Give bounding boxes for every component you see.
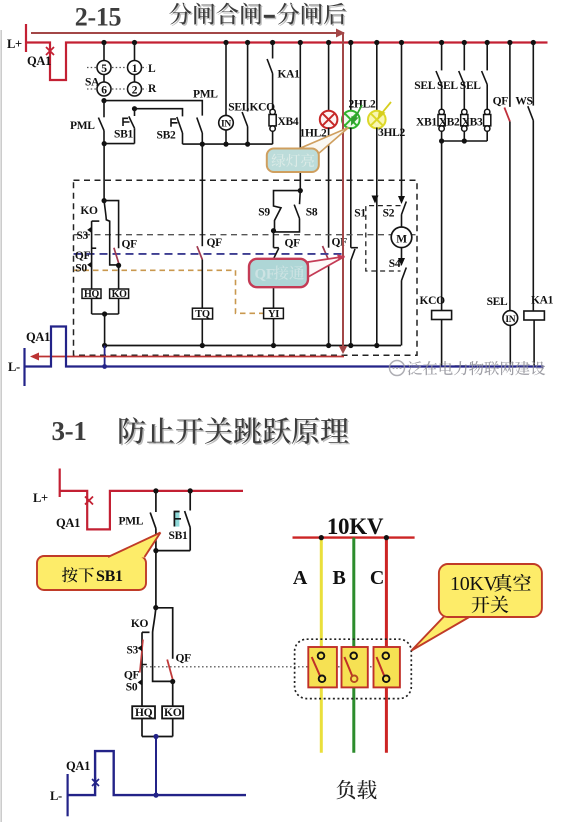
svg-text:M: M [396, 234, 407, 246]
HQ branch wire with travel marks [91, 221, 93, 289]
node KO top [102, 198, 107, 203]
wire XB join [442, 140, 488, 142]
svg-text:TQ: TQ [195, 309, 210, 320]
svg-text:QA1: QA1 [66, 759, 90, 773]
L- rail with QA1 bump (bottom) [68, 751, 246, 795]
svg-text:IN: IN [221, 120, 231, 130]
state-change red line [140, 640, 143, 673]
svg-text:XB2: XB2 [439, 117, 460, 129]
svg-text:WS: WS [515, 96, 532, 108]
contact KCO [242, 43, 248, 145]
svg-text:HQ: HQ [84, 289, 99, 300]
svg-text:6: 6 [101, 85, 107, 97]
svg-text:A: A [293, 567, 308, 589]
motor M [391, 227, 412, 248]
control switch SA contact 5 [97, 43, 111, 75]
svg-text:2HL2: 2HL2 [349, 99, 376, 111]
svg-text:KA1: KA1 [278, 69, 301, 81]
green arrow to 2HL2 [352, 105, 362, 124]
title 分闸合闸-分闸后 [169, 3, 261, 25]
coil HQ (bottom) [132, 706, 155, 718]
svg-text:KO: KO [112, 289, 127, 300]
breaker contact QF (right, red) [504, 43, 510, 311]
wire right branch to QF contact [104, 201, 119, 249]
node S9/S8 join [271, 228, 276, 233]
svg-text:S3: S3 [76, 230, 88, 242]
svg-text:SEL: SEL [487, 296, 508, 308]
coil KCO [432, 311, 452, 320]
lamp 2HL2 (green) [342, 111, 360, 129]
lamp column 3HL2 [376, 43, 378, 112]
control switch SA contact 2 [128, 75, 142, 97]
node below SA-6 [101, 98, 106, 103]
wire right branch QF (bottom) [156, 608, 173, 659]
svg-text:SEL: SEL [460, 80, 481, 92]
contact SEL #3 [482, 43, 488, 110]
svg-text:S2: S2 [383, 208, 395, 220]
svg-text:5: 5 [101, 63, 107, 75]
svg-text:QA1: QA1 [27, 54, 51, 68]
travel tick QF [92, 247, 97, 249]
dashed linkage line (gray) [74, 234, 418, 236]
callout 绿灯亮 pointer [296, 128, 349, 155]
dotted linkage to vacuum switch [142, 666, 374, 668]
control switch SA contact 1 [128, 43, 142, 75]
callout 按下SB1 box [37, 556, 146, 590]
callout 绿灯亮 box [267, 149, 319, 173]
link XB3 [484, 109, 491, 131]
wire TQ column [201, 144, 203, 246]
L+ rail with QA1 dip (bottom section) [60, 491, 243, 530]
bottom bus of interlock box [105, 345, 401, 347]
svg-text:S0: S0 [75, 263, 87, 275]
svg-text:C: C [370, 567, 384, 589]
svg-text:S9: S9 [258, 207, 270, 219]
svg-text:KA1: KA1 [531, 295, 554, 307]
breaker aux contact QF (red arm) [114, 248, 119, 264]
dashed linkage line QF (blue) [74, 253, 347, 255]
svg-text:QF: QF [332, 237, 348, 249]
svg-text:2: 2 [132, 85, 138, 97]
title 防止开关跳跃原理 [119, 417, 348, 444]
coil KA1 [524, 311, 545, 320]
svg-text:QF: QF [176, 653, 192, 665]
svg-text:SEL: SEL [437, 80, 458, 92]
L- rail with QA1 dip [25, 327, 544, 367]
svg-text:IN: IN [505, 315, 515, 325]
breaker aux contact QF (1HL2 branch) [323, 246, 329, 261]
svg-text:HQ: HQ [135, 707, 153, 719]
junction dots on L+ rail [101, 40, 536, 45]
dashed linkage line S0-YI (orange) [74, 270, 263, 313]
breaker aux contact QF (2HL2 branch, closed) [351, 248, 358, 261]
svg-text:S4: S4 [389, 258, 401, 270]
L+ terminal stub (bottom section) [59, 469, 61, 498]
wire down to KCO coil [441, 141, 443, 311]
phase B line (green) [352, 538, 355, 753]
L- terminal stub [23, 348, 25, 386]
10KV bus [293, 536, 415, 538]
vacuum switch pole A [308, 647, 337, 687]
wire down into interlock box [103, 144, 105, 201]
control switch SA contact 6 [97, 75, 111, 97]
contact WS [528, 43, 534, 312]
svg-text:SB2: SB2 [157, 130, 176, 142]
svg-text:R: R [148, 83, 157, 95]
wire S9/S8 feeder column [299, 43, 301, 191]
contact S8 [274, 191, 301, 232]
svg-text:10KV: 10KV [450, 573, 499, 595]
svg-text:KO: KO [164, 707, 182, 719]
vacuum switch dotted enclosure [295, 639, 412, 698]
svg-text:L-: L- [50, 789, 62, 803]
vacuum switch pole C [374, 647, 400, 687]
QA1 open-state x marker [46, 47, 54, 55]
node below SA-2 [132, 106, 137, 111]
breaker aux contact QF (red arm, bottom) [167, 660, 173, 680]
svg-text:QF: QF [124, 670, 140, 682]
callout QF接通 box [249, 259, 308, 287]
svg-text:1: 1 [132, 63, 138, 75]
svg-text:SEL: SEL [414, 80, 435, 92]
lamp 3HL2 (yellow) [368, 111, 386, 129]
QA1 * marker (blue) [92, 778, 99, 788]
contact S2 [402, 202, 407, 228]
coil KO (bottom) [162, 706, 183, 718]
L+ terminal stub [25, 24, 27, 52]
contact KO arm [153, 608, 173, 682]
fixed tick of KO [92, 220, 100, 222]
svg-text:KO: KO [80, 205, 98, 217]
inner dashed box S1/S2/M/S4 [366, 206, 401, 271]
svg-text:L-: L- [8, 360, 20, 374]
wire to SB2 [135, 109, 183, 117]
svg-text:SB1: SB1 [96, 568, 123, 585]
coil HQ [82, 289, 101, 298]
breaker aux contact QF (TQ branch, red arm) [197, 246, 202, 259]
fixed tick KO [142, 631, 150, 633]
svg-text:QF: QF [255, 267, 275, 283]
wire to L- (bottom) [155, 737, 157, 796]
svg-text:10KV: 10KV [327, 514, 384, 539]
screenshot left edge line [0, 30, 2, 822]
contact KO (moving arm) [104, 201, 119, 265]
title shadow 分闸合闸-分闸后 [171, 4, 263, 26]
node S9/S8 feed [298, 188, 303, 193]
pushbutton SB1 [123, 109, 135, 144]
svg-text:S0: S0 [126, 682, 138, 694]
device SEL (IN) [219, 43, 234, 145]
callout 10KV真空开关 box [439, 564, 542, 617]
svg-text:SEL: SEL [228, 102, 249, 114]
contact PML (bottom section) [150, 491, 156, 551]
travel mark S0 [138, 679, 142, 685]
wire S2 column from rail [401, 43, 403, 198]
link XB2 [461, 109, 468, 131]
contact PML (left) [98, 101, 104, 144]
lamp column 1HL2 [328, 43, 330, 112]
svg-text:S1: S1 [354, 208, 366, 220]
svg-text:SA: SA [85, 77, 100, 89]
contact PML (second) [197, 118, 203, 145]
svg-text:L+: L+ [7, 37, 22, 51]
svg-text:PML: PML [193, 89, 218, 101]
svg-text:2-15: 2-15 [75, 3, 122, 32]
watermark logo [390, 361, 405, 376]
wire HQ/KO join (bottom) [142, 719, 173, 737]
callout 10KV真空开关 pointer [412, 605, 472, 651]
svg-text:PML: PML [119, 516, 144, 528]
svg-text:QF: QF [75, 250, 91, 262]
flow arrow S2 [398, 196, 405, 204]
coil KO [110, 289, 129, 298]
current-path arrow (vertical) [342, 32, 344, 347]
S1 arrow marker [372, 196, 379, 204]
travel mark S3 [87, 227, 91, 233]
contact SEL #2 [459, 43, 465, 110]
current-path arrow along top [31, 32, 337, 34]
svg-text:QF: QF [493, 96, 509, 108]
watermark text [408, 361, 546, 375]
travel mark S3 [138, 645, 142, 651]
current-path arrow (bottom, to L-) [36, 356, 344, 358]
breaker aux contact QF (YI branch) [274, 231, 279, 309]
phase A line (yellow) [320, 538, 323, 753]
wire to PML column 2 [104, 101, 202, 116]
svg-text:3-1: 3-1 [51, 416, 86, 446]
callout text 绿灯亮 [272, 154, 315, 168]
lamp column 2HL2 [350, 43, 352, 112]
svg-text:L+: L+ [33, 491, 48, 505]
svg-text:KO: KO [131, 618, 149, 630]
QA1 x marker [85, 497, 93, 505]
coil YI [264, 308, 284, 318]
label 负载 [337, 780, 377, 799]
svg-text:SB1: SB1 [169, 530, 188, 542]
device SEL (IN, bottom right) [503, 311, 518, 326]
title shadow 防止开关跳跃原理 [121, 419, 350, 446]
contact S9 (passing contact) [274, 191, 301, 231]
svg-text:QF: QF [207, 237, 223, 249]
contact S4 [402, 268, 407, 346]
svg-text:QF: QF [122, 239, 138, 251]
lamp 1HL2 (red) [320, 111, 338, 129]
svg-text:S3: S3 [126, 645, 138, 657]
svg-text:QA1: QA1 [26, 330, 50, 344]
wire bus to L- [104, 346, 106, 367]
callout text 按下SB1 [62, 567, 94, 582]
wire node (PML/SB1 join) [104, 143, 135, 145]
svg-text:XB1: XB1 [416, 117, 437, 129]
svg-text:XB3: XB3 [462, 117, 483, 129]
contact SEL #1 [436, 43, 442, 110]
svg-text:L: L [148, 63, 156, 75]
travel mark S0 [87, 262, 91, 268]
svg-text:PML: PML [70, 120, 95, 132]
svg-text:B: B [332, 567, 345, 589]
pushbutton SB2 [171, 117, 183, 144]
node QF bottom [116, 263, 121, 268]
svg-text:SB1: SB1 [114, 129, 133, 141]
travel tick QF + label [142, 664, 147, 666]
mechanism interlock dashed box [74, 180, 418, 355]
vacuum switch pole B [342, 647, 368, 687]
phase C line (red) [385, 538, 388, 753]
pushbutton SB1 (pressed, highlighted) [175, 511, 180, 527]
SA dotted leader lines [87, 68, 147, 90]
callout QF接通 pointer [308, 257, 345, 278]
link XB4 [269, 109, 276, 131]
wire PML/SB1 join [156, 550, 190, 552]
HQ branch wire with marks (bottom) [141, 632, 143, 706]
svg-text:YI: YI [268, 309, 279, 320]
svg-text:QF: QF [285, 237, 301, 249]
svg-text:XB4: XB4 [278, 116, 299, 128]
yellow arrow to 3HL2 [379, 102, 391, 118]
link XB1 [438, 109, 445, 131]
svg-text:QA1: QA1 [56, 516, 80, 530]
node KO (bottom section) [153, 605, 158, 610]
L- terminal stub (bottom) [66, 774, 68, 816]
L+ rail with QA1 knife-switch dip [26, 43, 548, 81]
contact KA1 [267, 43, 273, 110]
wire HQ/KO join [92, 298, 119, 314]
flow arrow S4 [398, 258, 405, 266]
coil TQ [192, 308, 212, 319]
wire node B (lower bus to XB4) [183, 143, 273, 145]
svg-text:KCO: KCO [420, 295, 446, 307]
svg-text:S8: S8 [306, 207, 318, 219]
